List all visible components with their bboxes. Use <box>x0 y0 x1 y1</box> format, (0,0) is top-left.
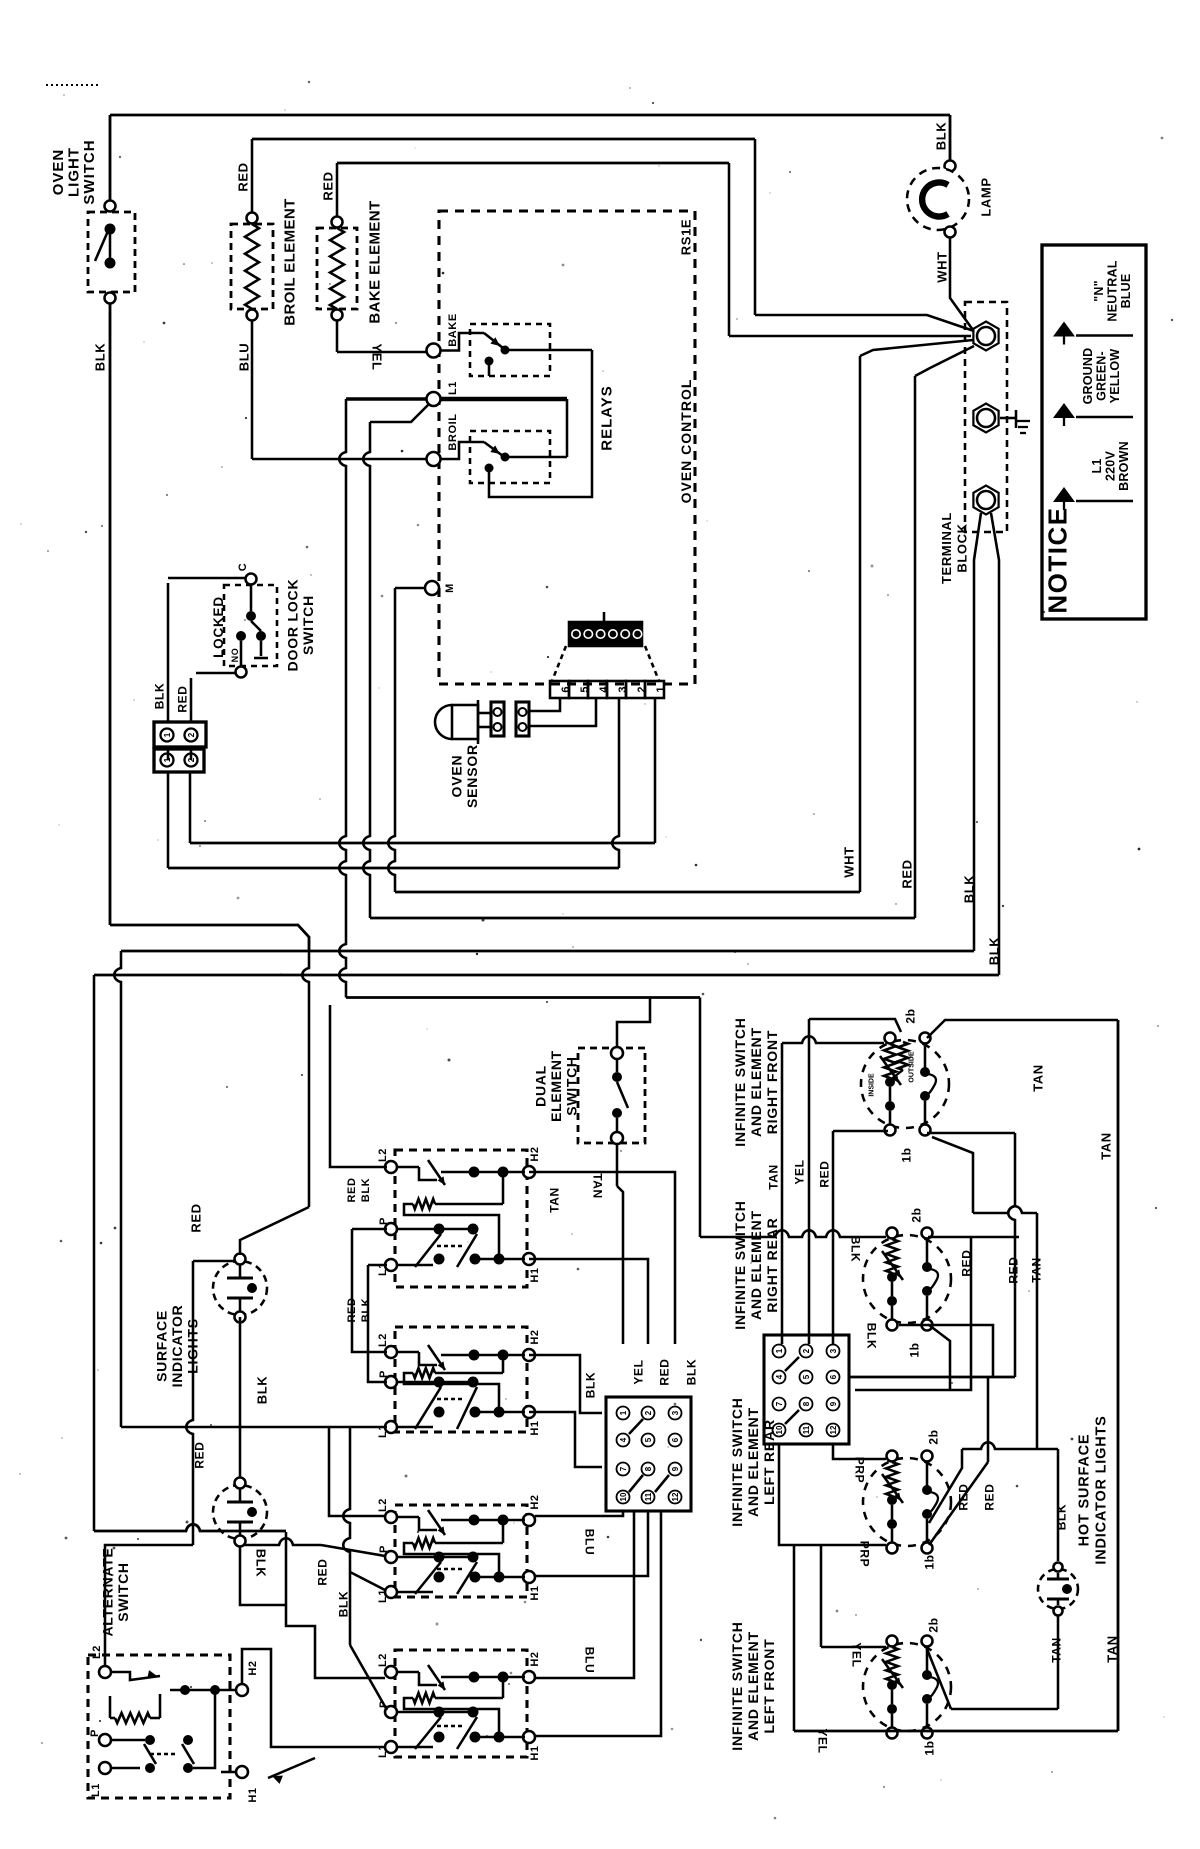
svg-text:12: 12 <box>671 1492 680 1501</box>
svg-text:RED: RED <box>982 1483 996 1510</box>
svg-text:RED: RED <box>900 859 915 888</box>
svg-text:H2: H2 <box>529 1651 541 1666</box>
svg-text:H2: H2 <box>529 1494 541 1509</box>
svg-text:L1: L1 <box>447 381 459 395</box>
svg-text:TAN: TAN <box>591 1173 605 1199</box>
svg-text:WHT: WHT <box>842 846 857 877</box>
svg-text:3: 3 <box>829 1348 838 1353</box>
svg-text:YEL: YEL <box>631 1359 645 1384</box>
svg-text:10: 10 <box>619 1492 628 1501</box>
svg-text:TAN: TAN <box>547 1187 561 1213</box>
svg-text:H2: H2 <box>529 1146 541 1161</box>
svg-text:P: P <box>378 1217 390 1225</box>
svg-text:1: 1 <box>775 1348 784 1353</box>
svg-text:TAN: TAN <box>1099 1132 1114 1160</box>
svg-text:2b: 2b <box>926 1617 940 1632</box>
svg-text:1b: 1b <box>922 1554 936 1569</box>
svg-text:8: 8 <box>802 1401 811 1406</box>
svg-text:6: 6 <box>671 1437 680 1442</box>
svg-text:7: 7 <box>775 1401 784 1406</box>
svg-text:BLK: BLK <box>152 683 166 709</box>
svg-text:RED: RED <box>315 1558 329 1585</box>
svg-text:OVENLIGHTSWITCH: OVENLIGHTSWITCH <box>50 139 98 204</box>
svg-text:2: 2 <box>644 1410 653 1415</box>
svg-text:BLK: BLK <box>987 937 1002 966</box>
svg-text:1: 1 <box>163 732 172 737</box>
svg-text:H1: H1 <box>529 1267 541 1282</box>
svg-text:BAKE: BAKE <box>447 313 459 347</box>
svg-text:BROIL ELEMENT: BROIL ELEMENT <box>281 198 298 325</box>
svg-text:LAMP: LAMP <box>979 177 994 216</box>
svg-text:OUTSIDE: OUTSIDE <box>909 1051 916 1082</box>
svg-text:H2: H2 <box>247 1660 259 1675</box>
svg-text:RED: RED <box>189 1203 204 1232</box>
svg-text:1b: 1b <box>922 1740 936 1755</box>
svg-text:TAN: TAN <box>1029 1257 1043 1283</box>
svg-text:P: P <box>378 1545 390 1553</box>
svg-text:INFINITE SWITCHAND ELEMENTLEFT: INFINITE SWITCHAND ELEMENTLEFT FRONT <box>729 1621 777 1750</box>
svg-text:5: 5 <box>644 1437 653 1442</box>
svg-text:RED: RED <box>956 1483 970 1510</box>
svg-text:11: 11 <box>802 1425 811 1434</box>
svg-text:L2: L2 <box>91 1645 103 1659</box>
svg-text:H1: H1 <box>529 1585 541 1600</box>
svg-text:1b: 1b <box>907 1342 921 1357</box>
svg-text:TAN: TAN <box>1031 1064 1046 1092</box>
svg-text:BLK: BLK <box>1054 1504 1068 1530</box>
svg-text:BLK: BLK <box>865 1323 879 1349</box>
svg-text:L2: L2 <box>377 1148 389 1162</box>
svg-text:L2: L2 <box>377 1498 389 1512</box>
svg-text:7: 7 <box>619 1466 628 1471</box>
svg-text:YEL: YEL <box>792 1159 806 1184</box>
svg-text:M: M <box>444 583 456 593</box>
svg-text:6: 6 <box>829 1374 838 1379</box>
svg-text:NOTICE: NOTICE <box>1042 506 1072 613</box>
svg-text:L1: L1 <box>90 1783 102 1797</box>
svg-text:TAN: TAN <box>1049 1637 1063 1663</box>
svg-text:8: 8 <box>644 1466 653 1471</box>
svg-text:12: 12 <box>829 1425 838 1434</box>
svg-text:P: P <box>89 1729 101 1737</box>
svg-text:1: 1 <box>619 1410 628 1415</box>
svg-text:BLK: BLK <box>93 343 108 372</box>
svg-text:9: 9 <box>829 1401 838 1406</box>
svg-text:BLU: BLU <box>583 1647 597 1673</box>
svg-text:P: P <box>378 1370 390 1378</box>
svg-text:OVEN CONTROL: OVEN CONTROL <box>678 379 694 504</box>
svg-text:INSIDE: INSIDE <box>869 1073 876 1097</box>
svg-text:RED: RED <box>1006 1256 1020 1283</box>
svg-text:BLK: BLK <box>253 1549 268 1578</box>
svg-text:2: 2 <box>802 1348 811 1353</box>
svg-text:RS1E: RS1E <box>679 219 694 255</box>
svg-text:BLU: BLU <box>583 1529 597 1555</box>
svg-text:3: 3 <box>671 1410 680 1415</box>
svg-text:4: 4 <box>775 1374 784 1379</box>
svg-text:TAN: TAN <box>766 1164 780 1190</box>
svg-text:RELAYS: RELAYS <box>598 385 615 450</box>
svg-text:BLK: BLK <box>336 1591 350 1617</box>
svg-text:BLK: BLK <box>684 1359 698 1385</box>
svg-text:4: 4 <box>619 1437 628 1442</box>
svg-text:RED: RED <box>175 685 189 712</box>
svg-text:TAN: TAN <box>1105 1635 1120 1663</box>
svg-text:2b: 2b <box>909 1207 923 1222</box>
svg-text:1b: 1b <box>899 1147 913 1162</box>
svg-text:YEL: YEL <box>369 343 384 370</box>
svg-text:BLK: BLK <box>962 875 977 904</box>
svg-text:C: C <box>237 563 249 572</box>
svg-text:LOCKED: LOCKED <box>211 596 226 658</box>
svg-text:L2: L2 <box>377 1653 389 1667</box>
svg-text:5: 5 <box>802 1374 811 1379</box>
svg-text:L2: L2 <box>377 1333 389 1347</box>
svg-text:BLU: BLU <box>237 343 252 372</box>
svg-text:H2: H2 <box>529 1329 541 1344</box>
svg-text:RED: RED <box>321 171 336 200</box>
svg-text:L1: L1 <box>377 1589 389 1603</box>
svg-text:9: 9 <box>671 1466 680 1471</box>
svg-text:RED: RED <box>657 1358 671 1385</box>
svg-text:GROUNDGREEN-YELLOW: GROUNDGREEN-YELLOW <box>1081 348 1122 405</box>
svg-text:H1: H1 <box>247 1787 259 1802</box>
svg-text:BLK: BLK <box>583 1372 597 1398</box>
svg-text:RED: RED <box>192 1441 206 1468</box>
svg-text:WHT: WHT <box>935 251 950 282</box>
svg-text:2b: 2b <box>926 1429 940 1444</box>
svg-text:BLK: BLK <box>934 122 949 151</box>
svg-text:BROIL: BROIL <box>447 413 459 450</box>
svg-text:BLK: BLK <box>255 1376 270 1405</box>
svg-text:RED: RED <box>236 162 251 191</box>
svg-text:11: 11 <box>644 1492 653 1501</box>
svg-text:2b: 2b <box>903 1008 917 1023</box>
svg-text:INFINITE SWITCHAND ELEMENTRIGH: INFINITE SWITCHAND ELEMENTRIGHT REAR <box>732 1200 780 1329</box>
svg-text:H1: H1 <box>529 1745 541 1760</box>
svg-text:RED: RED <box>817 1160 831 1187</box>
svg-text:2: 2 <box>187 732 196 737</box>
svg-text:RED: RED <box>959 1249 973 1276</box>
svg-text:PRP: PRP <box>853 1457 867 1483</box>
svg-text:BLK: BLK <box>849 1236 863 1262</box>
svg-text:HOT SURFACEINDICATOR LIGHTS: HOT SURFACEINDICATOR LIGHTS <box>1077 1415 1110 1564</box>
svg-text:NO: NO <box>230 648 240 663</box>
svg-text:INFINITE SWITCHAND ELEMENTRIGH: INFINITE SWITCHAND ELEMENTRIGHT FRONT <box>732 1017 780 1146</box>
svg-text:BAKE ELEMENT: BAKE ELEMENT <box>366 200 383 323</box>
svg-text:1: 1 <box>655 686 667 692</box>
svg-text:H1: H1 <box>529 1420 541 1435</box>
